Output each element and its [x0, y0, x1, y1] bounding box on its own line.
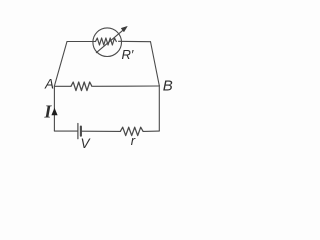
resistor between A and B	[71, 82, 92, 91]
rheostat R' arrowhead	[121, 26, 127, 31]
wire resistor to node B	[93, 85, 160, 87]
wire top-right horizontal	[119, 40, 151, 42]
rheostat R' arrow shaft	[96, 30, 123, 53]
rheostat R' zigzag element	[96, 38, 117, 45]
svg-text:B: B	[163, 78, 173, 95]
battery V short plate	[80, 127, 82, 136]
wire right diagonal (top wire to node B)	[151, 42, 160, 86]
wire left vertical (node A down to bottom wire)	[53, 86, 55, 131]
wire battery to resistor r	[82, 130, 121, 132]
svg-text:A: A	[44, 76, 54, 91]
wire top-left horizontal	[67, 41, 96, 43]
resistor r	[120, 127, 143, 135]
wire resistor r to bottom-right corner	[144, 130, 160, 132]
wire right vertical (node B down to bottom wire)	[158, 86, 160, 131]
wire left diagonal (top wire to node A)	[54, 42, 67, 87]
svg-text:V: V	[81, 136, 92, 151]
svg-text:r: r	[131, 133, 136, 148]
current I arrowhead on left wire	[51, 108, 57, 115]
svg-text:R′: R′	[122, 47, 134, 62]
battery V long plate	[77, 124, 79, 139]
wire bottom-left (corner to battery)	[54, 130, 77, 132]
svg-text:I: I	[43, 102, 52, 122]
rheostat R' circle	[93, 28, 122, 57]
wire node A to resistor	[54, 85, 71, 87]
